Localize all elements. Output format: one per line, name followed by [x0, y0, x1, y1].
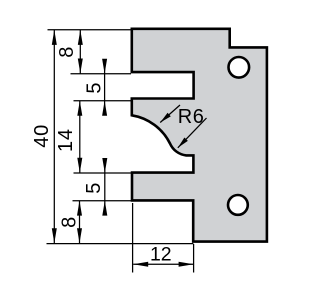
- extension line tab bottom: [73, 200, 132, 202]
- svg-text:8: 8: [56, 46, 78, 58]
- arrow 8top lower: [78, 59, 83, 74]
- arrow 40 bottom: [52, 228, 57, 243]
- extension line slot bottom: [74, 100, 132, 102]
- arrow R6 lower leader: [176, 138, 188, 150]
- dimension line 8 top: [79, 30, 81, 74]
- arrow 12 right: [179, 262, 194, 267]
- arrow R6 upper leader: [159, 113, 171, 125]
- hole H1 top: [229, 57, 250, 78]
- svg-text:8: 8: [59, 216, 81, 228]
- extension line bottom: [47, 243, 194, 245]
- arrow 14 lower: [77, 158, 82, 173]
- arrow 5bottom upper (outside): [102, 158, 107, 173]
- svg-text:R6: R6: [178, 106, 205, 128]
- dimension line 14: [79, 101, 81, 173]
- arrow 14 upper: [77, 101, 82, 116]
- dimension line 5 top: [104, 60, 106, 115]
- arrow 8bottom lower: [77, 228, 82, 243]
- hole H2 bottom: [228, 195, 248, 215]
- arrow 8bottom upper: [77, 201, 82, 216]
- arrow 5bottom lower (outside): [102, 201, 107, 216]
- extension line slot top: [71, 73, 132, 75]
- svg-text:5: 5: [83, 82, 105, 94]
- svg-text:5: 5: [83, 182, 105, 194]
- svg-text:40: 40: [31, 124, 53, 148]
- svg-text:12: 12: [150, 244, 172, 266]
- extension line 12 left: [132, 203, 134, 273]
- dimension line 8 bottom: [79, 201, 81, 244]
- arrow 5top upper (outside): [102, 59, 107, 74]
- dimension line 5 bottom: [104, 159, 106, 215]
- svg-text:14: 14: [55, 128, 77, 152]
- extension line tab top: [74, 172, 132, 174]
- arrow 8top upper: [78, 30, 83, 45]
- extension line top: [48, 29, 132, 31]
- extension line 12 right: [193, 244, 195, 273]
- leader line R6 lower: [178, 118, 207, 148]
- arrow 5top lower (outside): [102, 101, 107, 116]
- leader line R6 upper: [160, 105, 180, 123]
- profile plate body: [132, 29, 267, 242]
- dimension line 12: [133, 263, 193, 265]
- dimension line 40: [53, 30, 55, 243]
- arrow 12 left: [133, 262, 148, 267]
- arrow 40 top: [52, 30, 57, 45]
